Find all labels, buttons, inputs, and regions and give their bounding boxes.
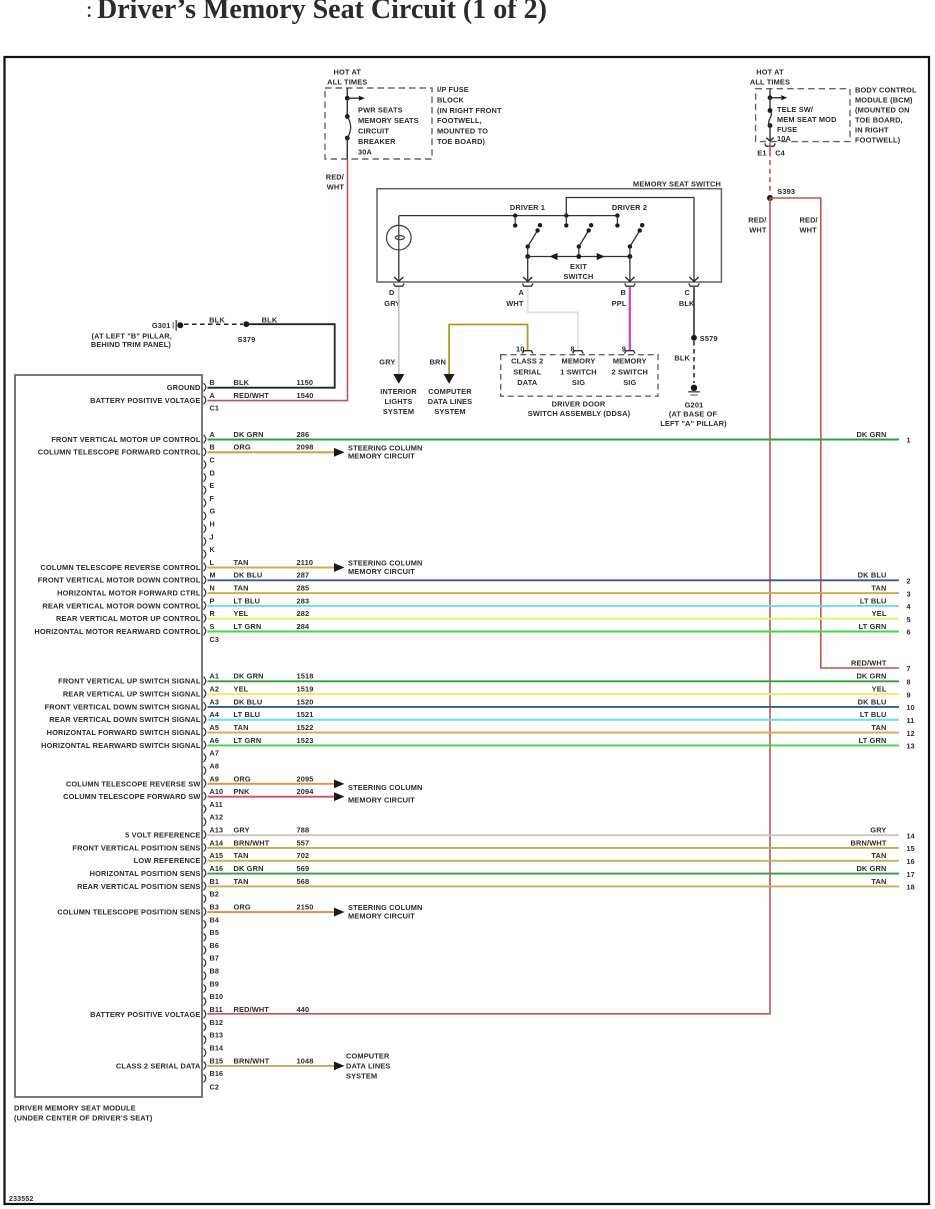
svg-text:BLK: BLK xyxy=(234,378,250,387)
svg-text:11: 11 xyxy=(907,716,915,725)
driver memory seat module box xyxy=(15,375,202,1097)
svg-text:MEMORY SEAT SWITCH: MEMORY SEAT SWITCH xyxy=(633,180,721,189)
exit rail right arrow xyxy=(597,253,605,260)
svg-text:S393: S393 xyxy=(777,187,795,196)
svg-text:1048: 1048 xyxy=(297,1056,314,1065)
svg-text:DRIVER MEMORY SEAT MODULE: DRIVER MEMORY SEAT MODULE xyxy=(14,1104,136,1113)
svg-text:FRONT VERTICAL MOTOR UP CONTRO: FRONT VERTICAL MOTOR UP CONTROL xyxy=(51,435,201,444)
svg-text:LT BLU: LT BLU xyxy=(860,710,887,719)
svg-text:1540: 1540 xyxy=(297,391,314,400)
svg-text:4: 4 xyxy=(907,602,911,611)
svg-text:2 SWITCH: 2 SWITCH xyxy=(612,367,649,376)
svg-text:K: K xyxy=(210,545,216,554)
svg-text:A: A xyxy=(210,430,215,439)
module pin A12 (empty) xyxy=(204,818,206,826)
svg-text:RED/WHT: RED/WHT xyxy=(851,658,887,667)
module pin L COLUMN TELESCOPE REVERSE CONTROL TAN 2110 xyxy=(204,563,206,571)
svg-text::: : xyxy=(86,0,92,22)
wire GRY to interior lights xyxy=(398,287,400,375)
module pin C (empty) xyxy=(204,461,206,469)
svg-text:B1: B1 xyxy=(210,877,220,886)
svg-text:MEMORY CIRCUIT: MEMORY CIRCUIT xyxy=(348,795,415,804)
svg-text:SIG: SIG xyxy=(623,378,636,387)
svg-text:FOOTWELL): FOOTWELL) xyxy=(855,136,901,145)
svg-text:A6: A6 xyxy=(210,736,220,745)
svg-text:BLK: BLK xyxy=(674,354,690,363)
svg-text:COLUMN TELESCOPE REVERSE SW: COLUMN TELESCOPE REVERSE SW xyxy=(66,779,201,788)
module pin B7 (empty) xyxy=(204,959,206,967)
svg-text:M: M xyxy=(210,571,216,580)
pin connector cup at x=398.8 xyxy=(394,283,405,286)
svg-text:C: C xyxy=(210,456,215,465)
svg-text:INTERIOR: INTERIOR xyxy=(380,387,417,396)
svg-text:C2: C2 xyxy=(210,1082,220,1091)
svg-text:9: 9 xyxy=(907,690,911,699)
svg-text:BLOCK: BLOCK xyxy=(437,95,465,104)
module pin M FRONT VERTICAL MOTOR DOWN CONTROL DK BLU 287 -> terminal 2 xyxy=(204,576,206,584)
svg-text:1150: 1150 xyxy=(297,378,314,387)
pin connector cup at x=527.7 xyxy=(522,283,533,286)
svg-text:A13: A13 xyxy=(210,826,224,835)
svg-text:17: 17 xyxy=(907,870,915,879)
svg-text:HORIZONTAL POSITION SENS: HORIZONTAL POSITION SENS xyxy=(90,869,201,878)
module pin A6 HORIZONTAL REARWARD SWITCH SIGNAL LT GRN 1523 -> terminal 13 xyxy=(204,741,206,749)
module pin A8 (empty) xyxy=(204,767,206,775)
module pin B1 REAR VERTICAL POSITION SENS TAN 568 -> terminal 18 xyxy=(204,882,206,890)
module pin J (empty) xyxy=(204,537,206,545)
module pin S HORIZONTAL MOTOR REARWARD CONTROL LT GRN 284 -> terminal 6 xyxy=(204,627,206,635)
svg-text:BATTERY POSITIVE VOLTAGE: BATTERY POSITIVE VOLTAGE xyxy=(90,1010,200,1019)
svg-text:B4: B4 xyxy=(210,915,220,924)
svg-text:LEFT "A" PILLAR): LEFT "A" PILLAR) xyxy=(660,419,727,428)
svg-text:557: 557 xyxy=(297,838,310,847)
svg-text:B: B xyxy=(210,443,215,452)
svg-text:A15: A15 xyxy=(210,851,224,860)
fuse F: TELE SW/MEM SEAT MOD FUSE 10A xyxy=(768,108,773,113)
svg-text:RED/: RED/ xyxy=(748,215,766,224)
module pin F (empty) xyxy=(204,499,206,507)
svg-text:WHT: WHT xyxy=(800,225,818,234)
node at fuse feed xyxy=(768,95,773,100)
svg-text:(MOUNTED ON: (MOUNTED ON xyxy=(855,106,910,115)
svg-text:COLUMN TELESCOPE REVERSE CONTR: COLUMN TELESCOPE REVERSE CONTROL xyxy=(40,563,200,572)
module pin B3 COLUMN TELESCOPE POSITION SENS ORG 2150 xyxy=(204,908,206,916)
svg-text:1519: 1519 xyxy=(297,685,314,694)
svg-text:1 SWITCH: 1 SWITCH xyxy=(560,367,597,376)
svg-text:10A: 10A xyxy=(777,134,792,143)
svg-text:WHT: WHT xyxy=(327,182,345,191)
svg-text:B15: B15 xyxy=(210,1056,224,1065)
svg-text:WHT: WHT xyxy=(749,225,767,234)
svg-text:B14: B14 xyxy=(210,1043,224,1052)
svg-text:MEMORY SEATS: MEMORY SEATS xyxy=(358,116,419,125)
svg-text:A9: A9 xyxy=(210,774,220,783)
module pin R REAR VERTICAL MOTOR UP CONTROL YEL 282 -> terminal 5 xyxy=(204,614,206,622)
svg-text:A5: A5 xyxy=(210,723,220,732)
svg-text:LT BLU: LT BLU xyxy=(234,710,261,719)
svg-text:B3: B3 xyxy=(210,902,220,911)
wire RED/WHT S393 down to module pin B11 xyxy=(208,198,771,1014)
pin arrowhead at x=527.7 xyxy=(523,277,532,281)
svg-text:MOUNTED TO: MOUNTED TO xyxy=(437,127,488,136)
svg-text:440: 440 xyxy=(297,1005,310,1014)
svg-text:BRN/WHT: BRN/WHT xyxy=(234,1056,270,1065)
svg-text:233552: 233552 xyxy=(9,1196,34,1203)
svg-text:283: 283 xyxy=(297,596,310,605)
svg-text:YEL: YEL xyxy=(872,685,887,694)
svg-text:G301: G301 xyxy=(152,321,171,330)
module pin B15 CLASS 2 SERIAL DATA BRN/WHT 1048 xyxy=(204,1061,206,1069)
svg-text:B: B xyxy=(621,288,627,297)
svg-text:PNK: PNK xyxy=(234,787,251,796)
svg-text:A3: A3 xyxy=(210,697,220,706)
svg-text:C1: C1 xyxy=(210,404,220,413)
module pin B COLUMN TELESCOPE FORWARD CONTROL ORG 2098 xyxy=(204,448,206,456)
module pin N HORIZONTAL MOTOR FORWARD CTRL TAN 285 -> terminal 3 xyxy=(204,589,206,597)
svg-text:30A: 30A xyxy=(358,147,373,156)
svg-text:LT BLU: LT BLU xyxy=(234,596,261,605)
wire BLK switch pin C to S579 xyxy=(693,287,695,335)
svg-text:MEMORY: MEMORY xyxy=(613,357,647,366)
wire PPL switch pin B to DDSA pin 9 xyxy=(629,287,631,350)
svg-text:SYSTEM: SYSTEM xyxy=(383,407,414,416)
svg-text:FRONT VERTICAL DOWN SWITCH SIG: FRONT VERTICAL DOWN SWITCH SIGNAL xyxy=(45,702,201,711)
splice S379 xyxy=(243,321,249,327)
wire BLK S379 to module pin B xyxy=(208,324,335,388)
svg-text:B7: B7 xyxy=(210,954,220,963)
wire stub into BCM xyxy=(769,89,771,99)
svg-text:DK BLU: DK BLU xyxy=(234,571,263,580)
wire rail to pin C via top xyxy=(566,198,694,282)
svg-text:ORG: ORG xyxy=(234,774,251,783)
svg-text:788: 788 xyxy=(297,826,310,835)
wire to fuse xyxy=(769,98,771,111)
svg-text:RED/WHT: RED/WHT xyxy=(234,1005,270,1014)
module pin A3 FRONT VERTICAL DOWN SWITCH SIGNAL DK BLU 1520 -> terminal 10 xyxy=(204,702,206,710)
svg-text:BRN/WHT: BRN/WHT xyxy=(234,838,270,847)
svg-text:A11: A11 xyxy=(210,800,223,809)
svg-text:GRY: GRY xyxy=(234,826,250,835)
svg-text:569: 569 xyxy=(297,864,310,873)
svg-text:MEMORY CIRCUIT: MEMORY CIRCUIT xyxy=(348,567,415,576)
svg-text:2150: 2150 xyxy=(297,902,314,911)
svg-text:G201: G201 xyxy=(685,400,704,409)
svg-text:TAN: TAN xyxy=(871,584,886,593)
module pin B GROUND BLK 1150 xyxy=(204,383,206,391)
module pin D (empty) xyxy=(204,473,206,481)
svg-text:A12: A12 xyxy=(210,813,224,822)
svg-text:(AT LEFT "B" PILLAR,: (AT LEFT "B" PILLAR, xyxy=(92,331,172,340)
svg-text:702: 702 xyxy=(297,851,310,860)
svg-text:BLK: BLK xyxy=(209,315,225,324)
svg-text:S579: S579 xyxy=(700,334,718,343)
svg-text:P: P xyxy=(210,596,215,605)
svg-text:EXIT: EXIT xyxy=(570,262,587,271)
svg-text:YEL: YEL xyxy=(234,685,249,694)
svg-text:YEL: YEL xyxy=(234,609,249,618)
wire BLK dashed S579 to G201 xyxy=(693,341,695,383)
svg-text:15: 15 xyxy=(907,844,915,853)
svg-text:LT GRN: LT GRN xyxy=(859,736,887,745)
svg-text:REAR VERTICAL POSITION SENS: REAR VERTICAL POSITION SENS xyxy=(77,882,200,891)
svg-text:284: 284 xyxy=(297,622,311,631)
svg-text:STEERING COLUMN: STEERING COLUMN xyxy=(348,783,423,792)
module pin A2 REAR VERTICAL UP SWITCH SIGNAL YEL 1519 -> terminal 9 xyxy=(204,690,206,698)
wire RED/WHT dashed from C4 to S393 xyxy=(769,142,771,151)
wire to breaker xyxy=(346,98,348,116)
pin connector cup at x=629.9 xyxy=(625,283,636,286)
svg-text:PWR SEATS: PWR SEATS xyxy=(358,106,403,115)
svg-text:F: F xyxy=(210,494,215,503)
svg-text:6: 6 xyxy=(907,628,911,637)
svg-text:12: 12 xyxy=(907,729,915,738)
svg-text:8: 8 xyxy=(907,678,911,687)
module pin B6 (empty) xyxy=(204,946,206,954)
svg-text:A2: A2 xyxy=(210,685,220,694)
svg-text:2: 2 xyxy=(907,577,911,586)
svg-text:B2: B2 xyxy=(210,890,220,899)
module pin A1 FRONT VERTICAL UP SWITCH SIGNAL DK GRN 1518 -> terminal 8 xyxy=(204,677,206,685)
svg-text:CLASS 2: CLASS 2 xyxy=(511,357,543,366)
svg-text:8: 8 xyxy=(571,344,575,353)
module pin B5 (empty) xyxy=(204,933,206,941)
svg-text:BEHIND TRIM PANEL): BEHIND TRIM PANEL) xyxy=(91,340,172,349)
svg-text:DRIVER 1: DRIVER 1 xyxy=(510,203,545,212)
svg-text:DRIVER 2: DRIVER 2 xyxy=(612,203,647,212)
svg-text:A4: A4 xyxy=(210,710,220,719)
module pin A11 (empty) xyxy=(204,805,206,813)
svg-text:BRN/WHT: BRN/WHT xyxy=(851,838,887,847)
svg-text:2110: 2110 xyxy=(297,558,314,567)
svg-text:3: 3 xyxy=(907,589,911,598)
svg-text:E: E xyxy=(210,481,215,490)
svg-text:18: 18 xyxy=(907,883,915,892)
svg-text:DATA: DATA xyxy=(517,378,538,387)
svg-text:282: 282 xyxy=(297,609,310,618)
svg-text:A14: A14 xyxy=(210,838,224,847)
wire RED/WHT S393 right and down to terminal 7 xyxy=(770,198,899,668)
svg-text:16: 16 xyxy=(907,857,915,866)
svg-text:REAR VERTICAL MOTOR UP CONTROL: REAR VERTICAL MOTOR UP CONTROL xyxy=(56,614,201,623)
svg-text:SWITCH: SWITCH xyxy=(563,272,593,281)
driver door switch assembly dashed box xyxy=(501,355,658,397)
svg-text:Driver’s Memory Seat Circuit (: Driver’s Memory Seat Circuit (1 of 2) xyxy=(97,0,547,25)
svg-text:TOE BOARD): TOE BOARD) xyxy=(437,137,486,146)
svg-text:MEMORY: MEMORY xyxy=(562,357,596,366)
svg-text:B9: B9 xyxy=(210,979,220,988)
module pin A FRONT VERTICAL MOTOR UP CONTROL DK GRN 286 -> terminal 1 xyxy=(204,435,206,443)
wire RED/WHT from breaker down to module pin A xyxy=(208,159,348,401)
wire exit rail to pin A xyxy=(527,257,529,282)
svg-text:A: A xyxy=(519,288,525,297)
DDSA pin cups 10 8 9 xyxy=(522,351,533,354)
svg-text:2095: 2095 xyxy=(297,774,314,783)
module pin B8 (empty) xyxy=(204,972,206,980)
I/P fuse block dashed box xyxy=(325,88,432,159)
svg-text:RED/WHT: RED/WHT xyxy=(234,391,270,400)
svg-text:TAN: TAN xyxy=(871,723,886,732)
svg-text:BLK: BLK xyxy=(679,299,695,308)
svg-text:A7: A7 xyxy=(210,749,220,758)
svg-text:FRONT VERTICAL UP SWITCH SIGNA: FRONT VERTICAL UP SWITCH SIGNAL xyxy=(58,677,201,686)
module pin B9 (empty) xyxy=(204,984,206,992)
svg-text:YEL: YEL xyxy=(872,609,887,618)
module pin A15 LOW REFERENCE TAN 702 -> terminal 16 xyxy=(204,856,206,864)
svg-text:B6: B6 xyxy=(210,941,220,950)
svg-text:I/P FUSE: I/P FUSE xyxy=(437,85,469,94)
svg-text:DATA LINES: DATA LINES xyxy=(428,397,472,406)
exit rail left arrow xyxy=(550,253,558,260)
svg-text:5 VOLT REFERENCE: 5 VOLT REFERENCE xyxy=(125,831,200,840)
svg-text:TAN: TAN xyxy=(234,558,249,567)
svg-text:B16: B16 xyxy=(210,1069,224,1078)
svg-text:2098: 2098 xyxy=(297,443,314,452)
svg-text:LT BLU: LT BLU xyxy=(860,596,887,605)
wire BRN DDSA pin 10 to data lines xyxy=(449,325,527,375)
svg-text:285: 285 xyxy=(297,584,310,593)
svg-text:A8: A8 xyxy=(210,761,220,770)
svg-text:ORG: ORG xyxy=(234,902,251,911)
svg-text:1: 1 xyxy=(907,436,911,445)
svg-text:L: L xyxy=(210,558,215,567)
svg-text:1520: 1520 xyxy=(297,697,314,706)
svg-text:MEM SEAT MOD: MEM SEAT MOD xyxy=(777,115,837,124)
svg-text:TOE BOARD,: TOE BOARD, xyxy=(855,116,903,125)
pin connector cup at x=694 xyxy=(689,283,700,286)
svg-text:TAN: TAN xyxy=(234,877,249,886)
splice S579 xyxy=(691,335,697,341)
module pin B4 (empty) xyxy=(204,920,206,928)
pin arrowhead at x=694 xyxy=(689,277,698,281)
svg-text:GRY: GRY xyxy=(379,358,395,367)
svg-text:BREAKER: BREAKER xyxy=(358,137,396,146)
arrow to interior lights system xyxy=(393,374,404,384)
svg-text:HOT AT: HOT AT xyxy=(334,68,362,77)
svg-text:LIGHTS: LIGHTS xyxy=(385,397,413,406)
svg-text:ALL TIMES: ALL TIMES xyxy=(327,78,367,87)
svg-text:REAR VERTICAL DOWN SWITCH SIGN: REAR VERTICAL DOWN SWITCH SIGNAL xyxy=(49,715,201,724)
svg-text:H: H xyxy=(210,520,215,529)
module pin A7 (empty) xyxy=(204,754,206,762)
module pin B13 (empty) xyxy=(204,1036,206,1044)
arrow to computer data lines system xyxy=(444,374,455,384)
svg-text:287: 287 xyxy=(297,571,310,580)
module pin A BATT RED/WHT 1540 xyxy=(204,396,206,404)
svg-text:REAR VERTICAL UP SWITCH SIGNAL: REAR VERTICAL UP SWITCH SIGNAL xyxy=(63,690,201,699)
svg-text:SIG: SIG xyxy=(572,378,585,387)
svg-text:B12: B12 xyxy=(210,1018,224,1027)
svg-text:TELE SW/: TELE SW/ xyxy=(777,105,813,114)
node at breaker feed xyxy=(345,96,350,101)
svg-text:CLASS 2 SERIAL DATA: CLASS 2 SERIAL DATA xyxy=(116,1061,201,1070)
svg-text:DK GRN: DK GRN xyxy=(856,430,886,439)
svg-text:DK GRN: DK GRN xyxy=(234,430,264,439)
svg-text:REAR VERTICAL MOTOR DOWN CONTR: REAR VERTICAL MOTOR DOWN CONTROL xyxy=(42,601,200,610)
svg-text:DATA LINES: DATA LINES xyxy=(346,1062,390,1071)
connector E1/C4 on BCM output xyxy=(765,144,776,147)
svg-text:MODULE (BCM): MODULE (BCM) xyxy=(855,96,913,105)
switch contact stub 2 xyxy=(564,213,568,217)
svg-text:A1: A1 xyxy=(210,672,220,681)
svg-text:MEMORY CIRCUIT: MEMORY CIRCUIT xyxy=(348,452,415,461)
svg-text:B11: B11 xyxy=(210,1005,223,1014)
module pin A9 COLUMN TELESCOPE REVERSE SW ORG 2095 xyxy=(204,779,206,787)
svg-text:B5: B5 xyxy=(210,928,220,937)
wire BLK dashed G301 to S379 xyxy=(184,323,243,325)
module pin A4 REAR VERTICAL DOWN SWITCH SIGNAL LT BLU 1521 -> terminal 11 xyxy=(204,715,206,723)
svg-text:S379: S379 xyxy=(238,335,256,344)
svg-text:B8: B8 xyxy=(210,967,220,976)
svg-text:C4: C4 xyxy=(775,148,785,157)
svg-text:S: S xyxy=(210,622,215,631)
svg-text:FUSE: FUSE xyxy=(777,125,797,134)
svg-text:C3: C3 xyxy=(210,635,220,644)
svg-text:TAN: TAN xyxy=(234,723,249,732)
svg-text:RED/: RED/ xyxy=(800,215,818,224)
svg-text:B10: B10 xyxy=(210,992,224,1001)
svg-text:SWITCH ASSEMBLY (DDSA): SWITCH ASSEMBLY (DDSA) xyxy=(528,409,631,418)
svg-text:RED/: RED/ xyxy=(326,172,344,181)
svg-text:10: 10 xyxy=(907,703,915,712)
svg-text:COMPUTER: COMPUTER xyxy=(428,387,472,396)
supply rail wire in switch xyxy=(399,215,618,217)
pin arrowhead at x=398.8 xyxy=(394,277,403,281)
svg-text:BRN: BRN xyxy=(430,358,446,367)
feed arrow right xyxy=(347,97,359,99)
svg-text:DK GRN: DK GRN xyxy=(234,864,264,873)
svg-text:DK BLU: DK BLU xyxy=(858,697,887,706)
svg-text:R: R xyxy=(210,609,216,618)
svg-text:DK GRN: DK GRN xyxy=(234,672,264,681)
switch blade 3 xyxy=(630,230,640,246)
svg-text:C: C xyxy=(685,288,691,297)
svg-text:LT GRN: LT GRN xyxy=(234,622,262,631)
module pin B11 BATTERY POSITIVE VOLTAGE RED/WHT 440 xyxy=(204,1010,206,1018)
svg-text:(AT BASE OF: (AT BASE OF xyxy=(669,410,718,419)
svg-text:(IN RIGHT FRONT: (IN RIGHT FRONT xyxy=(437,106,502,115)
svg-text:SYSTEM: SYSTEM xyxy=(346,1072,377,1081)
svg-text:A: A xyxy=(210,391,215,400)
svg-text:G: G xyxy=(210,507,216,516)
svg-text:HORIZONTAL MOTOR FORWARD CTRL: HORIZONTAL MOTOR FORWARD CTRL xyxy=(57,589,201,598)
module pin P REAR VERTICAL MOTOR DOWN CONTROL LT BLU 283 -> terminal 4 xyxy=(204,601,206,609)
svg-text:DK GRN: DK GRN xyxy=(856,672,886,681)
svg-text:N: N xyxy=(210,584,215,593)
wire WHT switch pin A to DDSA pin 8 xyxy=(528,287,578,350)
module pin B10 (empty) xyxy=(204,997,206,1005)
memory seat switch box xyxy=(377,189,721,282)
svg-text:9: 9 xyxy=(622,344,626,353)
module pin A14 FRONT VERTICAL POSITION SENS BRN/WHT 557 -> terminal 15 xyxy=(204,843,206,851)
svg-text:MEMORY CIRCUIT: MEMORY CIRCUIT xyxy=(348,911,415,920)
svg-text:2094: 2094 xyxy=(297,787,315,796)
svg-text:GROUND: GROUND xyxy=(167,383,201,392)
exit switch rail xyxy=(528,256,630,258)
svg-text:5: 5 xyxy=(907,615,911,624)
svg-text:1522: 1522 xyxy=(297,723,314,732)
svg-text:FOOTWELL,: FOOTWELL, xyxy=(437,116,482,125)
svg-text:WHT: WHT xyxy=(506,299,524,308)
module pin B14 (empty) xyxy=(204,1049,206,1057)
svg-text:PPL: PPL xyxy=(612,299,627,308)
svg-text:DRIVER DOOR: DRIVER DOOR xyxy=(552,399,606,408)
svg-text:BODY CONTROL: BODY CONTROL xyxy=(855,86,917,95)
switch blade 2 xyxy=(579,230,589,246)
feed arrow right (BCM) xyxy=(770,97,781,99)
svg-text:D: D xyxy=(210,468,215,477)
svg-text:COLUMN TELESCOPE POSITION SENS: COLUMN TELESCOPE POSITION SENS xyxy=(57,907,200,916)
body control module dashed box xyxy=(756,89,850,142)
